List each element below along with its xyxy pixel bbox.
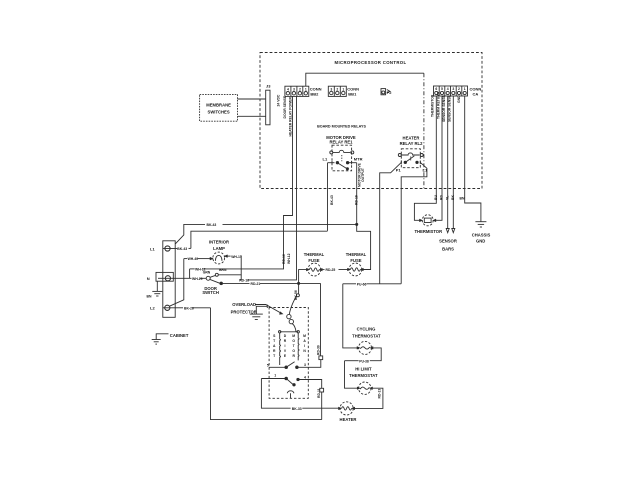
wire TF1 to TF2 [321, 269, 349, 271]
svg-text:L1: L1 [150, 246, 155, 251]
svg-text:RD-16: RD-16 [282, 254, 286, 264]
thermistor [422, 215, 433, 226]
overload protector [255, 283, 299, 331]
wire L1 to relay RE1 pole (BK-43 riser) [191, 163, 328, 249]
terminal N [158, 276, 174, 281]
svg-text:WH-40: WH-40 [188, 257, 199, 261]
wire lower terminal to bottom rail [321, 392, 323, 420]
wire CONN BB2 pin3 down (lamp sense) [248, 96, 297, 280]
svg-text:4: 4 [304, 375, 306, 379]
thermal fuse TF1 [306, 263, 322, 276]
wire CONN CA gnd pin to chassis ground [465, 96, 481, 222]
svg-text:THERMOSTAT: THERMOSTAT [349, 373, 378, 378]
svg-text:GRN: GRN [203, 270, 211, 274]
sensor bar 1 [446, 96, 449, 233]
svg-text:PROTECTOR: PROTECTOR [231, 309, 257, 314]
wire MTR output from RE1 to thermal fuse TF2 [356, 163, 371, 270]
svg-text:INTERIOR: INTERIOR [209, 240, 229, 245]
svg-text:O: O [292, 349, 295, 353]
motor vertical letter columns [273, 334, 306, 358]
wire BK-43 bus to MTR node [223, 223, 357, 225]
svg-text:I: I [304, 344, 305, 348]
svg-text:BU: BU [434, 195, 438, 200]
svg-text:RD-11: RD-11 [317, 388, 321, 398]
svg-text:RELAY RL2: RELAY RL2 [400, 141, 423, 146]
svg-text:SENSOR SENSE: SENSOR SENSE [442, 95, 446, 122]
relay RE1 coil [330, 150, 354, 154]
rotor arc [287, 391, 294, 399]
svg-text:GND: GND [457, 95, 461, 103]
centrifugal switch row A [269, 360, 321, 369]
wire down to cycling thermostat [343, 284, 359, 348]
svg-text:O: O [292, 339, 295, 343]
rotated wire labels [277, 91, 461, 398]
main winding [297, 333, 300, 360]
svg-text:WH-17: WH-17 [231, 255, 242, 259]
svg-text:SWITCHES: SWITCHES [208, 110, 230, 115]
svg-text:BARS: BARS [442, 246, 454, 251]
svg-text:L1: L1 [423, 167, 428, 172]
relay RE2 mechanical link [410, 157, 412, 162]
wire cycling to hi-limit [345, 348, 382, 388]
wire L2 to bottom rail [172, 308, 322, 420]
cycling thermostat [357, 341, 373, 354]
wire N to door switch [174, 277, 206, 279]
ground symbol below N [152, 281, 162, 296]
svg-text:24 VDC: 24 VDC [277, 94, 281, 106]
svg-text:N: N [147, 276, 150, 281]
relay RE2 dashed box [401, 149, 420, 168]
svg-text:BK-33: BK-33 [292, 407, 302, 411]
svg-text:BK-43: BK-43 [177, 247, 187, 251]
svg-text:RD-21: RD-21 [251, 282, 261, 286]
svg-text:SENSOR: SENSOR [439, 239, 457, 244]
relay RE1 dashed box [332, 145, 352, 171]
svg-text:MTR: MTR [354, 156, 363, 161]
svg-text:WH-29: WH-29 [192, 277, 203, 281]
svg-text:BK-43: BK-43 [330, 195, 334, 205]
svg-text:1: 1 [342, 87, 344, 91]
svg-text:1: 1 [464, 87, 466, 91]
wire CONN CA pin1 to thermistor [414, 96, 436, 220]
chassis ground symbol [475, 222, 486, 227]
inline terminal square lower [320, 388, 324, 392]
wire membrane to J3 pin 1 [238, 98, 266, 100]
svg-text:BN: BN [460, 196, 465, 200]
svg-text:M: M [292, 334, 295, 338]
svg-text:HI LIMIT: HI LIMIT [355, 366, 372, 371]
svg-text:3: 3 [304, 363, 306, 367]
svg-text:THERM RETURN: THERM RETURN [436, 91, 440, 119]
cabinet ground [152, 334, 169, 344]
svg-text:BOARD MOUNTED RELAYS: BOARD MOUNTED RELAYS [317, 124, 366, 128]
terminal L1 [163, 246, 177, 251]
svg-text:FUSE: FUSE [350, 258, 361, 263]
svg-text:CA: CA [473, 91, 479, 96]
svg-text:1: 1 [274, 373, 276, 377]
svg-text:4: 4 [447, 87, 449, 91]
svg-text:L1: L1 [323, 156, 328, 161]
svg-text:M: M [303, 334, 306, 338]
connector CONN BB2 [285, 86, 309, 96]
svg-text:4: 4 [287, 88, 289, 92]
wire RE2 left contact to PU-66 node [380, 162, 402, 283]
svg-text:PU-38: PU-38 [359, 359, 369, 363]
svg-text:3: 3 [452, 87, 454, 91]
svg-text:BK-26: BK-26 [184, 306, 194, 310]
wire lamp feed WH-40 [184, 257, 213, 259]
wire CONN CA pin2 to thermistor [434, 96, 442, 220]
wire RE2 right contact down to cycling feed [401, 162, 427, 283]
svg-text:RD-13: RD-13 [377, 389, 381, 399]
power terminal block [163, 241, 175, 317]
relay RE1 contacts [328, 161, 357, 170]
svg-text:BB1: BB1 [348, 91, 357, 96]
svg-text:CYCLING: CYCLING [357, 327, 376, 332]
svg-text:SWITCH: SWITCH [202, 290, 219, 295]
svg-text:BK-56: BK-56 [294, 290, 298, 300]
svg-text:THERMISTOR: THERMISTOR [431, 94, 435, 117]
svg-text:1: 1 [305, 88, 307, 92]
door switch [206, 273, 222, 284]
svg-text:HEATER: HEATER [403, 135, 420, 140]
svg-text:BB2: BB2 [310, 91, 319, 96]
relay RE2 contacts [401, 156, 420, 164]
dash-dot boundary line [423, 73, 425, 188]
svg-text:THERMAL: THERMAL [304, 252, 325, 257]
wire heater return BK-33 [261, 379, 340, 409]
svg-text:THERMAL: THERMAL [346, 252, 367, 257]
svg-text:CABINET: CABINET [170, 333, 189, 338]
svg-text:OUTPUT: OUTPUT [361, 167, 365, 182]
svg-text:CHASSIS: CHASSIS [472, 232, 491, 237]
wire L1 label gap [189, 247, 191, 249]
connector CONN BB1 [328, 86, 346, 96]
wire PU-66 node rail [343, 283, 401, 285]
svg-text:2: 2 [458, 87, 460, 91]
svg-text:P2: P2 [387, 90, 393, 95]
svg-text:MICROPROCESSOR CONTROL: MICROPROCESSOR CONTROL [335, 60, 407, 65]
drive motor dashed box [269, 308, 308, 399]
thermal fuse TF2 [347, 263, 363, 276]
svg-text:I: I [285, 344, 286, 348]
svg-text:6: 6 [435, 87, 437, 91]
wire from CONN BB2 top to dash-dot boundary [306, 73, 424, 86]
hi-limit thermostat [357, 382, 373, 394]
wire door switch to fuse rail RD-21 [223, 282, 321, 356]
terminal L2 [163, 305, 172, 310]
relay RE1 mechanical link [341, 155, 343, 161]
microprocessor control dashed box [260, 53, 482, 189]
svg-text:RD-25: RD-25 [326, 268, 336, 272]
inline terminal square upper [319, 356, 323, 360]
start winding [279, 333, 282, 365]
centrifugal switch row B [261, 377, 321, 388]
svg-text:2: 2 [299, 88, 301, 92]
svg-text:THERMOSTAT: THERMOSTAT [352, 333, 381, 338]
sensor bar 2 [452, 96, 455, 233]
svg-text:BN: BN [147, 294, 152, 298]
svg-text:GND: GND [476, 239, 485, 244]
svg-text:P1: P1 [396, 167, 402, 172]
svg-text:J3: J3 [266, 84, 271, 89]
membrane switches box [200, 95, 238, 122]
svg-text:BK-43: BK-43 [207, 223, 217, 227]
svg-text:DOOR SENSE: DOOR SENSE [283, 95, 287, 118]
wire L2 branch diagonal to lamp feed [170, 259, 184, 307]
svg-text:YL: YL [445, 196, 449, 200]
relay RE2 coil [398, 153, 423, 157]
wire terminal block corner diagonal to bus [175, 224, 205, 243]
svg-text:3: 3 [293, 88, 295, 92]
svg-text:BK: BK [451, 195, 455, 200]
neutral terminal box [156, 272, 173, 281]
interior lamp [213, 252, 225, 264]
ground symbol at motor frame [250, 305, 267, 320]
svg-text:RD-16: RD-16 [239, 279, 249, 283]
svg-text:BRN: BRN [219, 268, 227, 272]
svg-text:HEATER: HEATER [340, 417, 357, 422]
svg-text:PU-66: PU-66 [357, 283, 367, 287]
svg-text:3: 3 [330, 87, 332, 91]
svg-text:FUSE: FUSE [308, 258, 319, 263]
svg-text:WH-12: WH-12 [287, 253, 291, 264]
svg-text:THERMISTOR: THERMISTOR [414, 229, 442, 234]
svg-text:L2: L2 [150, 306, 155, 311]
wire membrane to J3 pin 2 [238, 115, 266, 117]
svg-text:RD-30: RD-30 [316, 345, 320, 355]
svg-text:LAMP: LAMP [213, 246, 225, 251]
svg-text:RELAY RE1: RELAY RE1 [329, 140, 353, 145]
wire hi-limit to heater [353, 388, 383, 408]
svg-text:5: 5 [267, 363, 269, 367]
svg-text:5: 5 [441, 87, 443, 91]
heater [338, 402, 355, 415]
svg-text:MEMBRANE: MEMBRANE [206, 103, 231, 108]
svg-text:2: 2 [336, 87, 338, 91]
connector CONN CA [434, 86, 468, 96]
wire CONN BB2 pin2 down (door sense) [203, 96, 293, 269]
wire lamp return WH-17 [218, 255, 241, 280]
connector P2 [381, 89, 390, 95]
svg-text:RD-19: RD-19 [355, 195, 359, 205]
svg-text:SENSOR SENSE: SENSOR SENSE [448, 95, 452, 122]
svg-text:OVERLOAD: OVERLOAD [232, 302, 256, 307]
motor winding bus [279, 331, 300, 333]
svg-text:RD: RD [440, 195, 444, 200]
wire fuse TF1 feed riser [299, 270, 308, 284]
svg-text:HEATER RELAY POWER: HEATER RELAY POWER [289, 96, 293, 136]
connector J3 [266, 90, 270, 125]
